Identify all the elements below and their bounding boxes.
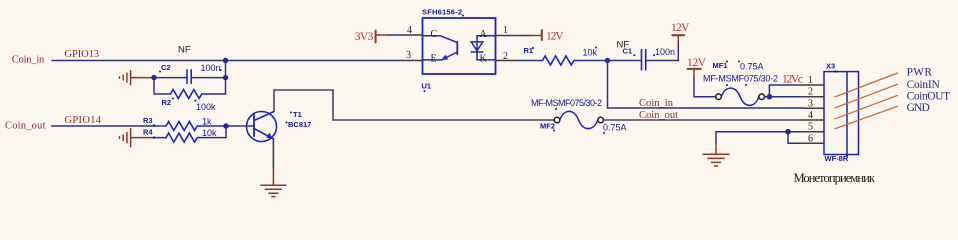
svg-text:R2: R2 <box>162 98 172 107</box>
svg-text:A: A <box>480 29 488 40</box>
junction node A (C2 left) <box>151 75 156 80</box>
svg-text:4: 4 <box>407 25 412 36</box>
svg-text:MF-MSMF075/30-2: MF-MSMF075/30-2 <box>703 73 778 83</box>
resistor R3 <box>166 122 200 131</box>
wire node A to C2 <box>154 77 186 79</box>
pin 4 stub (U1) <box>403 34 423 36</box>
svg-text:0.75A: 0.75A <box>740 62 764 72</box>
fuse MF2 <box>554 111 603 128</box>
svg-text:K: K <box>480 54 488 65</box>
svg-text:C2: C2 <box>161 63 171 72</box>
connector X3 body <box>824 72 859 155</box>
svg-text:Coin_in: Coin_in <box>12 55 45 66</box>
wire R4 left <box>154 137 166 139</box>
svg-text:3: 3 <box>808 98 813 109</box>
U1 internal LED <box>471 36 494 60</box>
svg-text:5: 5 <box>808 122 813 133</box>
junction R3/R4 <box>223 123 228 128</box>
svg-text:C: C <box>431 29 438 40</box>
svg-text:100k: 100k <box>196 102 216 112</box>
svg-text:12Vc: 12Vc <box>782 73 803 85</box>
wire C1 to 12V <box>647 43 679 61</box>
pin 1 stub (U1) <box>496 35 522 37</box>
svg-text:3: 3 <box>406 50 411 61</box>
power 12V (MF1) <box>687 57 716 97</box>
svg-text:Монетоприемник: Монетоприемник <box>794 171 876 185</box>
pin 3 stub (U1) <box>403 60 423 62</box>
wire MF2 to connector pin 4 <box>603 119 803 121</box>
svg-text:Coin_out: Coin_out <box>639 110 678 121</box>
junction on Coin_in net <box>223 58 228 63</box>
wire U1 pin2 to R1 <box>517 60 543 62</box>
ground (left, row 2) <box>120 129 155 147</box>
svg-text:10k: 10k <box>202 128 217 138</box>
wire junction to C1 <box>608 60 641 62</box>
wire R1 to junction <box>579 60 608 62</box>
svg-text:T1: T1 <box>293 110 302 119</box>
wire MF1 to pin1/pin2 <box>765 85 804 97</box>
svg-text:6: 6 <box>808 133 813 144</box>
wire net Coin_out (GPIO14) <box>52 125 166 127</box>
junction (R1/C1/Coin_in) <box>605 58 610 63</box>
svg-text:BC817: BC817 <box>288 120 311 129</box>
capacitor C2 <box>187 70 191 84</box>
svg-text:GPIO13: GPIO13 <box>65 49 100 60</box>
resistor R2 <box>171 90 207 99</box>
wire T1 collector to MF2 <box>274 90 554 120</box>
svg-text:3V3: 3V3 <box>355 31 374 43</box>
ground (below T1) <box>261 168 286 197</box>
svg-text:100n: 100n <box>655 47 675 57</box>
svg-text:MF1: MF1 <box>713 61 728 70</box>
resistor R1 <box>543 56 579 65</box>
wire base of T1 <box>226 125 254 127</box>
svg-text:X3: X3 <box>826 62 835 71</box>
wire R4 right up to junction <box>200 126 226 138</box>
svg-text:1k: 1k <box>202 117 212 127</box>
wire node B up to main net <box>225 61 227 78</box>
svg-text:GPIO14: GPIO14 <box>65 115 102 126</box>
svg-text:Coin_out: Coin_out <box>5 121 46 132</box>
optocoupler U1 box <box>423 18 496 74</box>
svg-text:SFH6156-2: SFH6156-2 <box>422 8 462 17</box>
transistor T1 BC817 <box>247 112 277 142</box>
power 12V (above C1) <box>671 22 690 35</box>
pin 2 stub (U1) <box>496 60 518 62</box>
svg-text:GND: GND <box>907 102 930 114</box>
power 12V (U1 pin 1) <box>521 30 564 42</box>
svg-text:CoinOUT: CoinOUT <box>907 90 951 102</box>
svg-text:1: 1 <box>503 25 508 36</box>
svg-text:CoinIN: CoinIN <box>907 79 941 91</box>
wire Coin_in vertical drop <box>608 61 804 109</box>
wire T1 emitter down <box>272 139 274 169</box>
wire pin6 riser <box>788 132 803 144</box>
ground (left, row 1) <box>120 71 155 85</box>
svg-text:R1: R1 <box>524 46 534 55</box>
resistor R4 <box>166 133 200 142</box>
svg-text:PWR: PWR <box>907 67 933 79</box>
svg-text:R4: R4 <box>143 128 153 137</box>
svg-text:12V: 12V <box>671 22 690 34</box>
svg-text:10k: 10k <box>583 48 598 58</box>
wire R3 right to junction <box>200 125 226 127</box>
svg-text:100n: 100n <box>201 63 221 73</box>
svg-text:4: 4 <box>808 110 813 121</box>
svg-text:Coin_in: Coin_in <box>639 98 674 109</box>
svg-text:MF-MSMF075/30-2: MF-MSMF075/30-2 <box>531 98 602 108</box>
svg-text:12V: 12V <box>687 57 707 69</box>
svg-text:1: 1 <box>808 75 813 86</box>
svg-text:MF2: MF2 <box>540 122 555 131</box>
junction pin5/pin6 <box>785 129 791 135</box>
ground (connector) <box>703 143 729 166</box>
capacitor C1 <box>642 50 646 70</box>
connector X3 pin stubs <box>803 85 824 143</box>
power 3V3 <box>355 31 403 44</box>
wire net Coin_in (GPIO13) <box>52 60 403 62</box>
svg-text:2: 2 <box>808 87 813 98</box>
junction MF1 out <box>767 94 773 100</box>
wire C2 to node B <box>192 77 226 79</box>
annotation rays to pin names <box>835 73 898 129</box>
svg-text:R3: R3 <box>143 116 153 125</box>
svg-text:E: E <box>431 54 437 65</box>
svg-text:C1: C1 <box>623 47 633 56</box>
U1 internal phototransistor <box>424 36 458 60</box>
junction node B (C2 right) <box>223 75 228 80</box>
svg-text:U1: U1 <box>422 82 432 91</box>
fuse MF1 <box>716 88 765 105</box>
svg-text:WF-8R: WF-8R <box>825 154 849 163</box>
wire pin5 to ground <box>716 132 803 143</box>
svg-text:NF: NF <box>178 45 191 56</box>
resistor R2 loop wires <box>154 78 226 94</box>
svg-text:0.75A: 0.75A <box>603 123 627 133</box>
svg-text:12V: 12V <box>546 30 564 42</box>
svg-text:2: 2 <box>503 51 508 62</box>
